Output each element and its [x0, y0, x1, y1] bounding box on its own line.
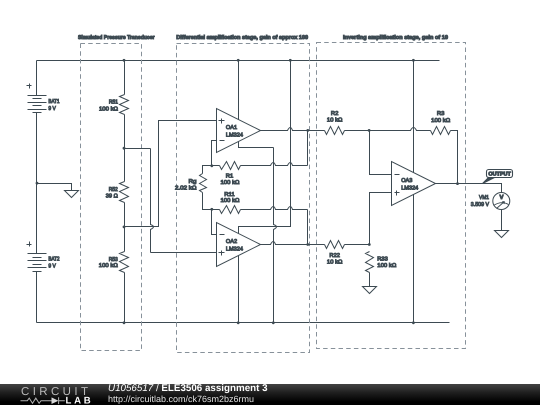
output flag pointer	[483, 178, 495, 184]
wire to ground G1	[37, 184, 72, 191]
voltmeter needle	[497, 202, 505, 209]
wire BAT2 bottom lead	[36, 272, 38, 323]
dashed box Simulated Pressure Transducer	[81, 44, 142, 351]
battery BAT2 9V	[28, 253, 47, 255]
wire R3 left lead (hops over OA3 V+ riser)	[370, 128, 431, 131]
svg-text:Simulated Pressure Transducer: Simulated Pressure Transducer	[78, 34, 155, 41]
wire R1 left lead	[212, 165, 220, 167]
wire -9V bottom rail	[37, 322, 450, 324]
ground below R33	[363, 287, 377, 294]
wire R11 left lead	[212, 209, 220, 211]
svg-text:3.509 V: 3.509 V	[471, 202, 489, 208]
svg-text:LM324: LM324	[401, 186, 418, 192]
resistor R33	[366, 252, 374, 273]
svg-text:9 V: 9 V	[48, 264, 56, 270]
wire to OA3 - input	[370, 131, 392, 175]
node OA2 V- rail junction	[237, 321, 240, 324]
svg-text:Differential amplification sta: Differential amplification stage, gain o…	[176, 34, 308, 41]
wire OA1 output (hops over OA2 V+ riser)	[261, 128, 325, 131]
node R22-R33 junction	[368, 243, 371, 246]
svg-text:R51: R51	[109, 99, 118, 105]
node OA1 output feedback junction	[306, 129, 309, 132]
ground below VM1	[495, 231, 509, 238]
wire OA2 - input from feedback node	[212, 210, 217, 235]
node OA3 V+ rail junction	[412, 59, 415, 62]
svg-text:OA1: OA1	[226, 125, 237, 131]
wire R51 top lead	[124, 61, 126, 95]
node OA2 feedback node	[210, 208, 213, 211]
resistor R1	[220, 162, 241, 170]
svg-text:100 kΩ: 100 kΩ	[221, 197, 240, 204]
wire OA2 output (hops over OA1 V- riser)	[261, 242, 325, 245]
op-amp OA1 minus input mark	[220, 140, 225, 142]
node R3 feedback junction on output	[456, 182, 459, 185]
resistor R22	[325, 241, 345, 249]
svg-text:R22: R22	[329, 253, 340, 259]
wire R2 right lead	[345, 130, 370, 132]
node OA1 V+ rail junction	[237, 59, 240, 62]
svg-text:OA3: OA3	[401, 178, 412, 184]
node A R51-R52 tap	[123, 147, 126, 150]
svg-text:100 kΩ: 100 kΩ	[377, 262, 396, 269]
resistor R53	[120, 252, 129, 273]
op-amp OA2	[217, 223, 261, 267]
svg-text:Rg: Rg	[189, 179, 197, 185]
wire OA2 V+ pin routed to rail	[239, 61, 291, 234]
wire OA3 V+ pin to rail	[413, 61, 415, 173]
svg-text:Inverting amplification stage,: Inverting amplification stage, gain of 1…	[343, 34, 448, 41]
svg-text:39 Ω: 39 Ω	[106, 193, 118, 199]
node OA2 V+ rail junction	[289, 59, 292, 62]
svg-text:R3: R3	[437, 111, 445, 117]
resistor Rg	[200, 174, 207, 193]
op-amp OA3	[392, 162, 436, 206]
svg-text:100 kΩ: 100 kΩ	[431, 117, 450, 124]
node OA2 output feedback junction	[306, 243, 309, 246]
node OA1 V- rail junction	[272, 321, 275, 324]
svg-text:9 V: 9 V	[48, 106, 56, 112]
wire R53 bottom lead	[124, 273, 126, 323]
resistor R51	[120, 95, 129, 115]
dashed box Differential amplification stage	[177, 44, 310, 353]
svg-text:2.02 kΩ: 2.02 kΩ	[175, 185, 197, 192]
op-amp OA3 plus input mark	[395, 191, 400, 196]
node R51 top rail junction	[123, 59, 126, 62]
wire R22 right lead	[345, 244, 370, 246]
svg-text:BAT2: BAT2	[48, 257, 59, 263]
resistor R2	[325, 127, 345, 135]
wire OA3 V- pin to bottom rail	[413, 195, 415, 323]
svg-text:100 kΩ: 100 kΩ	[99, 262, 118, 269]
ground G1	[65, 191, 79, 198]
svg-text:R1: R1	[226, 173, 234, 179]
wire node B to OA1 + input	[125, 121, 217, 227]
node B R52-R53 tap	[123, 226, 126, 229]
wire R52-R53	[124, 203, 126, 252]
wire between BAT1 and BAT2	[36, 113, 38, 254]
output flag box	[487, 170, 513, 178]
op-amp OA2 plus input mark	[219, 251, 225, 256]
svg-text:10 kΩ: 10 kΩ	[327, 258, 343, 265]
node battery midpoint junction	[36, 182, 39, 185]
voltmeter gauge arc	[494, 203, 509, 206]
wire R3 right lead to OA3 output	[451, 131, 458, 184]
CircuitLab footer logo	[21, 386, 91, 405]
svg-text:OA2: OA2	[226, 239, 237, 245]
wire OA1 V- pin routed to bottom rail	[239, 142, 274, 148]
svg-text:LAB: LAB	[66, 396, 91, 405]
battery BAT1 9V	[28, 95, 47, 97]
svg-text:V: V	[499, 194, 503, 201]
svg-text:10 kΩ: 10 kΩ	[327, 117, 343, 124]
wire R51-R52	[124, 115, 126, 182]
op-amp OA3 minus input mark	[395, 174, 400, 176]
node OA3 V- rail junction	[412, 321, 415, 324]
wire OA3 output to voltmeter	[436, 184, 502, 193]
wire OA2 V- pin to bottom rail	[238, 256, 240, 323]
svg-text:R33: R33	[377, 256, 388, 262]
op-amp OA1 plus input mark	[219, 119, 225, 124]
resistor R11	[220, 206, 241, 214]
wire battery left rail top	[36, 61, 38, 96]
svg-text:100 kΩ: 100 kΩ	[221, 179, 240, 186]
resistor R3	[431, 127, 451, 135]
node R2-R3 junction	[368, 129, 371, 132]
svg-text:100 kΩ: 100 kΩ	[99, 105, 118, 112]
wire to OA3 + input	[370, 193, 392, 245]
wire OA1 - input to feedback node	[212, 141, 217, 166]
node OA1 feedback node	[210, 164, 213, 167]
voltmeter VM1 body	[493, 193, 510, 210]
resistor R52	[120, 182, 129, 203]
svg-text:R52: R52	[109, 187, 118, 193]
wire Rg top lead	[203, 166, 212, 174]
op-amp OA1	[217, 109, 261, 153]
dashed box Inverting amplification stage	[317, 43, 466, 349]
svg-text:LM324: LM324	[226, 133, 243, 139]
wire R11 right lead to OA2 output (hops)	[241, 207, 308, 210]
node R53 bottom rail junction	[123, 321, 126, 324]
svg-text:BAT1: BAT1	[48, 99, 59, 105]
svg-text:LM324: LM324	[226, 246, 243, 252]
svg-text:R11: R11	[224, 192, 235, 198]
wire voltmeter to ground	[501, 210, 503, 231]
wire R33 bottom lead	[369, 273, 371, 287]
wire Rg bottom lead	[203, 193, 212, 210]
svg-text:VM1: VM1	[479, 195, 489, 201]
svg-text:OUTPUT: OUTPUT	[488, 171, 511, 177]
wire R1 right lead to OA1 output (hops)	[241, 163, 308, 166]
wire OA1 V+ pin to rail	[238, 61, 240, 120]
svg-text:R2: R2	[331, 111, 339, 117]
wire node A to OA2 + input (hops over node-B wire)	[125, 148, 151, 150]
wire +9V top rail	[37, 60, 440, 62]
op-amp OA2 minus input mark	[220, 234, 225, 236]
